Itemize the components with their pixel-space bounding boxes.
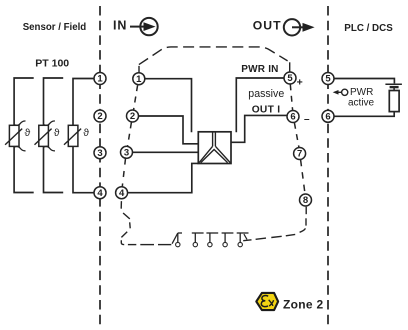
svg-text:1: 1: [136, 74, 142, 85]
dashed link terminal chain right col: [290, 84, 305, 194]
resistor RT2 PT100: [35, 121, 55, 151]
svg-text:7: 7: [297, 149, 302, 160]
T-BUS connector 5: [237, 233, 249, 247]
svg-text:Sensor / Field: Sensor / Field: [23, 22, 87, 33]
svg-text:ϑ: ϑ: [54, 127, 60, 139]
node terminal 7 device: [294, 148, 306, 160]
T-BUS connector 2: [192, 233, 204, 247]
wire sensor1 top: [14, 78, 34, 125]
wire sensor2 bottom: [44, 146, 64, 192]
svg-text:–: –: [304, 114, 310, 125]
svg-text:active: active: [348, 97, 375, 108]
svg-text:5: 5: [325, 74, 331, 85]
PWR direction icon: [333, 89, 348, 95]
svg-text:passive: passive: [248, 88, 284, 100]
wire PLC supply bottom: [334, 112, 394, 117]
svg-text:5: 5: [287, 73, 293, 84]
svg-text:OUT: OUT: [253, 19, 282, 33]
svg-text:PWR IN: PWR IN: [241, 64, 278, 75]
Ex hexagon ATEX symbol: [256, 293, 278, 310]
zone separator right: [327, 6, 329, 326]
node terminal 1 field: [94, 73, 106, 85]
svg-text:IN: IN: [113, 18, 127, 32]
wire PWR IN terminal5 to isolator top right: [236, 78, 284, 132]
svg-text:PT 100: PT 100: [35, 57, 69, 69]
node terminal 6 device: [287, 111, 299, 123]
IN icon: [130, 18, 158, 35]
svg-text:+: +: [297, 76, 303, 88]
OUT icon: [284, 19, 315, 35]
svg-text:3: 3: [97, 148, 102, 159]
T-BUS connector 4: [222, 233, 234, 247]
dashed bus rise to terminal 8: [243, 207, 306, 241]
svg-text:PWR: PWR: [350, 87, 373, 98]
wire OUT I terminal6 to isolator right: [231, 115, 287, 142]
svg-text:ϑ: ϑ: [83, 127, 89, 139]
svg-text:1: 1: [97, 74, 103, 85]
dashed link terminal chain col2: [122, 85, 137, 186]
wire PLC supply top: [334, 79, 394, 84]
node terminal 6 PLC: [322, 110, 334, 122]
svg-text:4: 4: [119, 188, 125, 199]
svg-text:2: 2: [130, 111, 135, 122]
node terminal 3 field: [94, 147, 106, 159]
T-BUS connector 1: [172, 233, 182, 247]
wire terminal2 to isolator left: [139, 116, 199, 144]
svg-text:PLC / DCS: PLC / DCS: [344, 23, 393, 34]
svg-text:6: 6: [325, 112, 330, 123]
T-BUS connector 3: [206, 233, 218, 247]
node terminal 2 field: [94, 110, 106, 122]
node terminal 5 device: [284, 72, 296, 84]
node terminal 2 device: [127, 110, 139, 122]
svg-text:8: 8: [303, 195, 308, 206]
wire terminal3 to isolator left: [133, 151, 199, 153]
node terminal 4 device: [116, 187, 128, 199]
op-amp U1 isolator box: [198, 132, 231, 164]
resistor RT1 PT100: [5, 121, 25, 151]
wire terminal4 to isolator bottom: [128, 163, 199, 192]
node terminal 5 PLC: [322, 73, 334, 85]
node terminal 4 field: [94, 187, 106, 199]
svg-text:ϑ: ϑ: [25, 127, 31, 139]
cable loom dashed outline: [139, 47, 290, 76]
node terminal 8 device: [300, 194, 312, 206]
node terminal 3 device: [121, 146, 133, 158]
svg-text:OUT I: OUT I: [252, 105, 281, 116]
wire sensor2 top: [44, 78, 64, 125]
svg-text:4: 4: [97, 188, 103, 199]
dashed bus drop from terminal 4: [121, 201, 171, 245]
wire sensor3 top to terminal 1: [73, 79, 94, 126]
wire terminal1 to isolator top left: [145, 79, 192, 133]
wire sensor1 bottom: [14, 146, 34, 192]
svg-text:2: 2: [97, 111, 102, 122]
resistor R load: [389, 91, 399, 112]
terminal circles: [94, 72, 334, 206]
node terminal 1 device: [133, 73, 145, 85]
zone separator left: [99, 6, 101, 326]
svg-text:6: 6: [290, 112, 295, 123]
wire sensor3 bottom to terminal 4: [73, 146, 94, 192]
resistor RT3 PT100: [64, 125, 81, 146]
svg-text:3: 3: [124, 148, 129, 159]
svg-text:Zone 2: Zone 2: [283, 298, 323, 312]
battery B1: [385, 84, 402, 90]
